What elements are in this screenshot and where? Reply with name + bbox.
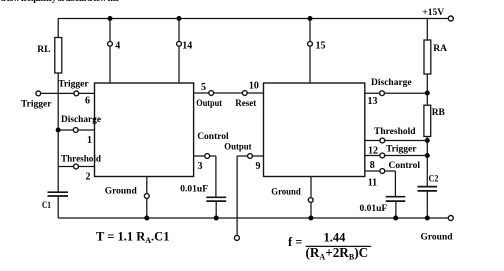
pin 12 <box>380 138 385 143</box>
svg-text:1: 1 <box>87 135 92 146</box>
pin ground U2 <box>308 198 313 203</box>
svg-text:6: 6 <box>85 96 90 107</box>
svg-text:C2: C2 <box>429 174 439 184</box>
fraction bar <box>306 245 372 247</box>
wire U2 output pin9 down to terminal <box>237 156 263 235</box>
formula f = 1.44/((RA+2RB)C) <box>288 231 368 262</box>
svg-text:11: 11 <box>368 177 377 188</box>
svg-text:15: 15 <box>316 41 326 52</box>
svg-text:C1: C1 <box>42 201 51 211</box>
wire threshold to pin 2 <box>58 166 94 168</box>
svg-text:Output: Output <box>196 99 222 109</box>
node RA-RB junction <box>425 91 430 96</box>
pin 15 <box>308 41 313 46</box>
svg-text:+15V: +15V <box>422 8 444 18</box>
svg-text:Ground: Ground <box>271 187 301 197</box>
svg-text:1.44: 1.44 <box>324 231 347 245</box>
wire output pin5 to reset pin10 <box>194 92 264 94</box>
svg-text:Control: Control <box>389 161 421 171</box>
timer IC U2 (556 section 2) <box>264 83 365 177</box>
formula T = 1.1 RA.C1 <box>96 230 169 245</box>
svg-text:RL: RL <box>37 45 50 55</box>
node trigger junction <box>425 153 430 158</box>
svg-text:4: 4 <box>115 41 120 52</box>
pin 5 <box>209 91 214 96</box>
svg-text:T = 1.1 RA.C1: T = 1.1 RA.C1 <box>96 230 169 245</box>
wire threshold pin12 <box>365 140 427 142</box>
timer IC U1 (556 section 1) <box>95 83 194 177</box>
svg-text:Threshold: Threshold <box>374 127 416 137</box>
wire discharge to pin 1 <box>58 129 94 131</box>
capacitor C1 <box>48 192 69 196</box>
wire pin 15 to rail <box>309 19 311 84</box>
wire trigger pin8 <box>365 155 427 157</box>
svg-text:2: 2 <box>86 172 91 183</box>
svg-text:5: 5 <box>201 82 206 93</box>
svg-text:9: 9 <box>256 161 261 172</box>
node +15V terminal <box>448 16 453 21</box>
node pin14 rail junction <box>177 16 182 21</box>
svg-text:0.01uF: 0.01uF <box>360 204 388 214</box>
svg-text:RB: RB <box>432 108 446 118</box>
resistor RL <box>55 38 62 74</box>
node Trigger input terminal <box>36 91 41 96</box>
svg-text:0.01uF: 0.01uF <box>180 185 208 195</box>
pin 13 <box>380 91 385 96</box>
pin 10 <box>242 91 247 96</box>
svg-text:Trigger: Trigger <box>58 79 89 89</box>
node pin4 rail junction <box>108 16 113 21</box>
pin 6 <box>74 91 79 96</box>
svg-text:Ground: Ground <box>421 233 454 243</box>
svg-text:10: 10 <box>249 81 259 92</box>
svg-text:f =: f = <box>288 235 302 249</box>
node U2 ground rail junction <box>308 216 313 221</box>
top clipped text line <box>1 0 121 4</box>
svg-text:8: 8 <box>370 160 375 171</box>
wire bottom ground rail <box>58 217 448 219</box>
pin 2 <box>74 164 79 169</box>
resistor RA <box>426 19 428 94</box>
svg-text:Trigger: Trigger <box>21 100 52 110</box>
wire RL vertical (supply to C1) <box>57 19 59 219</box>
node threshold junction <box>425 138 430 143</box>
svg-text:Reset: Reset <box>235 99 257 109</box>
node discharge junction on RL leg <box>56 128 61 133</box>
wire discharge pin13 <box>365 92 427 94</box>
wire control pin11 to cap <box>365 171 396 197</box>
node output terminal (bottom middle) <box>234 235 239 240</box>
svg-text:Discharge: Discharge <box>61 115 101 125</box>
svg-text:a low frequency of about a few: a low frequency of about a few her <box>1 0 121 4</box>
node U1 ground rail junction <box>144 216 149 221</box>
svg-text:14: 14 <box>182 40 192 51</box>
svg-text:Discharge: Discharge <box>371 78 412 88</box>
node C2 rail junction <box>425 216 430 221</box>
wire pin 14 to rail <box>178 19 180 84</box>
pin 14 <box>177 41 182 46</box>
pin 4 <box>108 41 113 46</box>
wire U1 ground pin to rail <box>146 177 148 219</box>
node cap2 rail junction <box>393 216 398 221</box>
svg-text:(RA+2RB)C: (RA+2RB)C <box>306 245 369 262</box>
capacitor 0.01uF (U1 control) <box>206 197 226 201</box>
node cap1 rail junction <box>214 216 219 221</box>
svg-text:Control: Control <box>197 132 229 142</box>
wire pin 4 to rail <box>109 19 111 84</box>
wire U2 ground pin to rail <box>310 177 312 219</box>
svg-text:Trigger: Trigger <box>386 145 417 155</box>
svg-text:Output: Output <box>224 143 252 153</box>
svg-text:Ground: Ground <box>105 186 138 196</box>
wire trigger input to pin 6 <box>41 92 95 94</box>
pin ground U1 <box>144 194 149 199</box>
wire cap2 to ground rail <box>395 201 397 218</box>
wire cap to ground rail <box>215 201 217 218</box>
node pin15 rail junction <box>308 16 313 21</box>
pin 1 <box>73 128 78 133</box>
svg-text:RA: RA <box>433 44 447 54</box>
capacitor 0.01uF (U2 control) <box>386 197 406 201</box>
pin 9 <box>248 154 253 159</box>
pin 11 (control) <box>380 169 385 174</box>
pin 8 <box>380 153 385 158</box>
wire control pin3 to cap <box>194 156 216 197</box>
svg-text:Threshold: Threshold <box>61 154 102 164</box>
node Ground terminal (bottom right) <box>448 216 453 221</box>
svg-text:13: 13 <box>368 96 378 107</box>
pin 3 <box>205 154 210 159</box>
resistor RB <box>426 93 428 218</box>
svg-text:3: 3 <box>198 161 203 172</box>
wire +15V top rail <box>58 18 448 20</box>
capacitor C2 <box>418 187 438 191</box>
svg-text:12: 12 <box>368 145 378 156</box>
